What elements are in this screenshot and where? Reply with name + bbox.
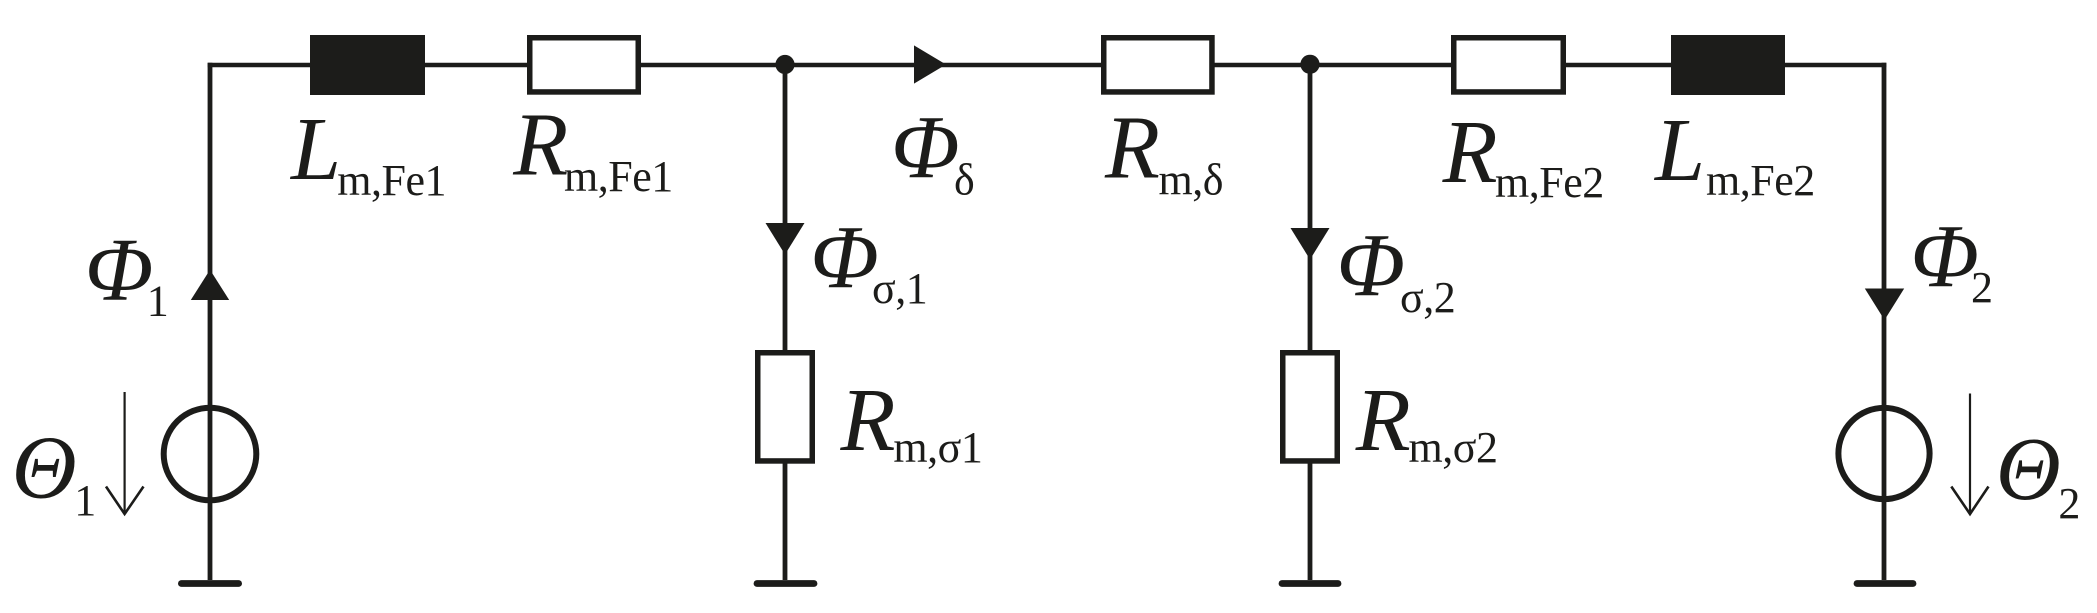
svg-text:Φ: Φ <box>85 221 154 320</box>
resistor R_m,sigma2 (vertical) <box>1283 353 1338 461</box>
svg-text:Φ: Φ <box>1337 216 1406 315</box>
ground branch 2 <box>1282 580 1338 587</box>
mmf source Theta_2 (circle) <box>1838 408 1929 499</box>
resistor R_m,delta <box>1104 38 1212 92</box>
svg-text:L: L <box>1653 101 1705 200</box>
wire left vertical <box>208 63 213 580</box>
flux arrow Phi_sigma1 (down, branch 1) <box>766 223 805 255</box>
svg-text:L: L <box>289 100 341 199</box>
flux arrow Phi_2 (down, on right wire) <box>1865 289 1904 321</box>
svg-text:Θ: Θ <box>12 418 77 517</box>
resistor R_m,sigma1 (vertical) <box>758 353 813 461</box>
svg-text:δ: δ <box>954 155 974 204</box>
flux arrow Phi_delta (right, on top wire) <box>914 45 946 83</box>
mmf source Theta_1 (circle) <box>164 408 257 501</box>
svg-text:m,σ2: m,σ2 <box>1409 423 1498 472</box>
node junction dot 1 <box>775 55 794 74</box>
svg-text:Φ: Φ <box>1910 208 1979 307</box>
flux arrow Phi_1 (up, on left wire) <box>191 270 229 300</box>
ground right <box>1857 580 1913 587</box>
svg-text:R: R <box>1104 98 1160 197</box>
svg-text:m,Fe1: m,Fe1 <box>337 156 446 205</box>
wire branch 2 vertical <box>1308 65 1313 580</box>
svg-text:m,Fe2: m,Fe2 <box>1495 158 1604 207</box>
inductance block L_m,Fe1 (filled) <box>310 35 425 95</box>
svg-text:2: 2 <box>2058 479 2080 528</box>
svg-text:1: 1 <box>74 476 96 525</box>
svg-text:m,Fe1: m,Fe1 <box>564 152 673 201</box>
flux arrow Phi_sigma2 (down, branch 2) <box>1291 228 1330 260</box>
svg-text:R: R <box>1442 103 1498 202</box>
svg-text:R: R <box>512 96 568 195</box>
svg-text:m,σ1: m,σ1 <box>893 423 982 472</box>
svg-text:R: R <box>840 371 896 470</box>
svg-text:2: 2 <box>1971 263 1993 312</box>
svg-text:m,δ: m,δ <box>1159 156 1223 205</box>
svg-text:Φ: Φ <box>891 98 960 197</box>
node junction dot 2 <box>1300 55 1319 74</box>
ground branch 1 <box>757 580 814 587</box>
annotation arrow Theta_2 (thin, down) <box>1951 394 1988 515</box>
svg-text:σ,2: σ,2 <box>1400 273 1455 322</box>
wire top horizontal <box>208 63 1887 68</box>
wire right vertical <box>1882 63 1887 580</box>
svg-text:Θ: Θ <box>1996 420 2061 519</box>
wire branch 1 vertical <box>783 65 788 580</box>
ground left <box>181 580 238 587</box>
svg-text:m,Fe2: m,Fe2 <box>1706 156 1815 205</box>
annotation arrow Theta_1 (thin, down) <box>106 392 144 514</box>
svg-text:σ,1: σ,1 <box>872 264 927 313</box>
svg-text:1: 1 <box>147 276 169 325</box>
resistor R_m,Fe2 <box>1454 38 1564 92</box>
svg-text:R: R <box>1355 371 1411 470</box>
resistor R_m,Fe1 <box>530 38 639 92</box>
inductance block L_m,Fe2 (filled) <box>1671 35 1785 95</box>
svg-text:Φ: Φ <box>810 208 879 307</box>
